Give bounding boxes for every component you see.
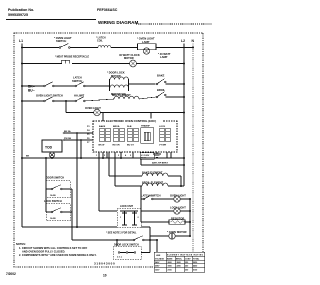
junction x77 input a bbox=[76, 132, 78, 134]
svg-text:CONV: CONV bbox=[185, 258, 191, 260]
EOC pin labels below bbox=[96, 154, 132, 157]
wire row3 mid bbox=[54, 85, 75, 87]
header rule left bbox=[6, 19, 96, 21]
junction pin4 row158 bbox=[120, 157, 122, 159]
svg-text:120V: 120V bbox=[155, 270, 160, 272]
switch S9 door switch 1 (dashed box) bbox=[46, 181, 70, 198]
wire row1 mid b bbox=[111, 47, 137, 49]
junction L2 row158 bbox=[183, 157, 185, 159]
ground chassis EOC bbox=[153, 152, 161, 157]
svg-text:ANTI-TIP BRKT: ANTI-TIP BRKT bbox=[152, 162, 169, 165]
svg-text:BK: BK bbox=[26, 156, 30, 158]
motor M2 door lock motor (double winding) bbox=[110, 77, 129, 91]
svg-text:BAKE: BAKE bbox=[99, 125, 106, 128]
svg-text:TOTAL: TOTAL bbox=[193, 257, 200, 260]
junction L1 row158 bbox=[21, 157, 23, 159]
switch S11 door lock bbox=[133, 236, 144, 241]
svg-text:240V: 240V bbox=[155, 261, 160, 264]
svg-text:L2: L2 bbox=[181, 39, 185, 43]
svg-text:VOLTAGE: VOLTAGE bbox=[155, 257, 165, 260]
svg-text:LOCK SWITCH: LOCK SWITCH bbox=[44, 200, 62, 203]
wire row240 right bbox=[144, 239, 157, 241]
connector J1 meat probe receptacle bbox=[62, 60, 70, 63]
svg-text:5995359725: 5995359725 bbox=[8, 13, 28, 17]
wire row211 right bbox=[180, 210, 190, 212]
relay K5 lock unit (dashed box with contacts) bbox=[117, 209, 141, 228]
label latch switch b bbox=[72, 76, 82, 83]
wire row199 mid bbox=[153, 198, 174, 200]
wire row2 right bbox=[136, 63, 184, 65]
wire lamp row left bbox=[66, 112, 94, 114]
svg-text:MOTOR: MOTOR bbox=[124, 56, 134, 60]
svg-text:5950: 5950 bbox=[193, 262, 197, 264]
junction broil corner bbox=[180, 185, 182, 187]
svg-text:* SEE NOTE 2 FOR DETAIL: * SEE NOTE 2 FOR DETAIL bbox=[106, 232, 137, 235]
svg-text:2100: 2100 bbox=[168, 270, 172, 272]
relay K3 DLB relay bbox=[127, 126, 138, 147]
switch S4 bake contact bbox=[156, 79, 166, 85]
svg-text:DOOR SWITCH: DOOR SWITCH bbox=[46, 177, 64, 180]
switch S12 door lock switch (dashed box) bbox=[113, 247, 141, 260]
switch S6 hi-limit bbox=[75, 97, 85, 102]
resistor R4 bbox=[169, 220, 185, 224]
wire vertical x77 EOC to bottom row bbox=[76, 133, 78, 227]
wire row2 mid bbox=[72, 63, 130, 65]
motor M3 convection bbox=[169, 233, 175, 239]
svg-text:RD OR: RD OR bbox=[113, 145, 120, 147]
wire b1a box right to x150 bbox=[141, 252, 150, 254]
junction row222 return bbox=[189, 221, 191, 223]
label latch coil bbox=[96, 37, 106, 43]
junction row240 x117 bbox=[116, 239, 118, 241]
svg-text:SWITCH: SWITCH bbox=[56, 39, 66, 43]
svg-text:SWITCH: SWITCH bbox=[72, 79, 82, 83]
wire row199 left bbox=[141, 198, 143, 200]
junction L1 row3 bbox=[21, 85, 23, 87]
svg-text:3000: 3000 bbox=[177, 262, 181, 264]
label clock motor bbox=[119, 53, 140, 60]
wire row4 to element bbox=[85, 99, 114, 101]
transformer T1 bbox=[141, 125, 154, 144]
relay K4 lock relay bbox=[159, 126, 170, 147]
svg-text:260: 260 bbox=[185, 266, 188, 268]
wire vertical x157 to table bbox=[156, 240, 158, 253]
junction x81 input b bbox=[80, 139, 82, 141]
junction L1 row2 bbox=[21, 63, 23, 65]
svg-text:1. CIRCUIT SHOWN WITH ALL CONT: 1. CIRCUIT SHOWN WITH ALL CONTROLS SET T… bbox=[19, 246, 88, 250]
wire row4 right bbox=[165, 96, 184, 98]
junction row211 return bbox=[189, 210, 191, 212]
svg-text:4460: 4460 bbox=[193, 265, 197, 268]
svg-text:BU--: BU-- bbox=[28, 89, 35, 93]
wire row199 right bbox=[180, 198, 190, 200]
switch S10 door switch 2 (dashed box) bbox=[46, 204, 70, 221]
svg-text:COIL: COIL bbox=[97, 39, 103, 42]
svg-text:ELECTRONIC OVEN CONTROL (EOC): ELECTRONIC OVEN CONTROL (EOC) bbox=[106, 119, 156, 123]
wire lamp return bus bbox=[189, 199, 191, 236]
svg-text:5100: 5100 bbox=[193, 270, 197, 272]
wire row3 to motor bbox=[85, 85, 109, 87]
wire bake to corner bbox=[168, 175, 181, 177]
junction tee row4 bbox=[65, 100, 67, 102]
lamp DS1 oven light (socket + bulb) bbox=[138, 44, 157, 54]
switch S1 oven light switch bbox=[59, 44, 70, 49]
svg-text:BAKE: BAKE bbox=[167, 257, 173, 260]
lamp DS5 lock light bbox=[174, 208, 180, 214]
wire row240 bbox=[72, 239, 133, 241]
junction L1 row1 bbox=[21, 47, 23, 49]
switch S5 oven light switch bbox=[44, 97, 54, 102]
svg-text:2. COMPONENTS WITH * ARE USED: 2. COMPONENTS WITH * ARE USED ON SOME MO… bbox=[19, 253, 97, 257]
op-amp U1 electronic oven control box bbox=[93, 121, 177, 152]
header rule right dotted bbox=[136, 23, 212, 25]
svg-text:60 Hz: 60 Hz bbox=[141, 157, 148, 159]
element R1 coil bbox=[114, 96, 139, 99]
svg-text:BK W: BK W bbox=[99, 145, 106, 147]
junction row240 x150 bbox=[149, 239, 151, 241]
svg-text:ELEMENT WATTAGE RATING: ELEMENT WATTAGE RATING bbox=[167, 254, 204, 257]
junction row236 return bbox=[189, 235, 191, 237]
connector P1 small box bbox=[140, 153, 154, 160]
wire y211 into lock unit bbox=[99, 210, 117, 212]
switch S2 latch switch a bbox=[44, 82, 54, 87]
wire row222 right bbox=[185, 221, 190, 223]
wire lock unit out right row211 bbox=[140, 210, 142, 212]
svg-text:VT WR: VT WR bbox=[159, 145, 166, 147]
wire row158 bbox=[22, 157, 184, 159]
junction row199 return bbox=[189, 198, 191, 200]
element R2 bake element bbox=[142, 173, 168, 176]
junction L2 row165 bbox=[183, 164, 185, 166]
wire row3 right bbox=[165, 83, 184, 85]
svg-text:7/2002: 7/2002 bbox=[6, 272, 16, 276]
svg-text:AND OVEN DOOR FULLY CLOSED.: AND OVEN DOOR FULLY CLOSED. bbox=[22, 249, 66, 253]
svg-text:WIRING DIAGRAM: WIRING DIAGRAM bbox=[98, 20, 138, 25]
wire row227 L1 to lock unit bbox=[22, 226, 117, 228]
wire N bus bbox=[192, 44, 194, 254]
schematic border frame bbox=[14, 33, 203, 267]
wire row222 left bbox=[141, 221, 169, 223]
wire row4 left bbox=[22, 100, 44, 102]
wire lock unit bottom out bbox=[141, 226, 150, 228]
svg-text:BROIL: BROIL bbox=[176, 258, 183, 260]
svg-text:BAKE: BAKE bbox=[157, 74, 165, 78]
svg-text:LAMP: LAMP bbox=[142, 40, 150, 44]
stub lamp row to EOC top bbox=[102, 113, 104, 122]
label oven light switch S1 bbox=[54, 36, 72, 43]
junction row240 x157 bbox=[156, 239, 158, 241]
element L1a latch coil bbox=[98, 45, 111, 47]
svg-text:LOCK UNIT: LOCK UNIT bbox=[120, 205, 134, 208]
junction x77 row227 bbox=[76, 226, 78, 228]
wire vertical x72 bbox=[71, 189, 73, 240]
lamp DS4 oven light bbox=[174, 196, 180, 202]
header: publication number block bbox=[8, 8, 34, 17]
wire lamp row right bbox=[100, 112, 184, 114]
wire row2 left bbox=[22, 63, 62, 65]
wire row236 right bbox=[175, 235, 190, 237]
wire EOC left input b bbox=[63, 139, 65, 141]
wire motor to switch bbox=[129, 83, 156, 85]
svg-text:DOOR LOCK SWITCH: DOOR LOCK SWITCH bbox=[114, 244, 139, 247]
svg-text:1A 2B: 1A 2B bbox=[50, 217, 56, 220]
wire vertical x150 row240 to b1a bbox=[149, 240, 151, 253]
wire row1 mid a bbox=[70, 47, 98, 49]
wire row4 mid with tee bbox=[54, 100, 75, 102]
svg-text:TRANSF: TRANSF bbox=[141, 125, 151, 128]
wire row1 right bbox=[156, 47, 193, 49]
svg-text:PW 5B: PW 5B bbox=[64, 138, 71, 140]
svg-text:2250: 2250 bbox=[177, 266, 181, 268]
svg-text:BROIL: BROIL bbox=[157, 88, 165, 92]
svg-text:b 1 a: b 1 a bbox=[117, 257, 123, 259]
svg-text:* MEAT PROBE RECEPTACLE: * MEAT PROBE RECEPTACLE bbox=[55, 56, 89, 59]
wire EOC left input a bbox=[63, 132, 65, 134]
wire vertical x117 to lock switch box bbox=[116, 240, 118, 246]
svg-text:208V: 208V bbox=[155, 266, 160, 268]
wire L1 bus bbox=[21, 44, 23, 228]
svg-text:DLB: DLB bbox=[127, 126, 132, 128]
wire pin drop bake bbox=[108, 152, 110, 176]
wire row165 from connector to L2 bbox=[140, 159, 142, 165]
svg-text:OVEN LIGHT SWITCH: OVEN LIGHT SWITCH bbox=[36, 94, 63, 98]
wire vertical x46 from row158 bbox=[45, 157, 47, 159]
wire vertical x150 bbox=[149, 236, 151, 240]
wire tee down to lamp row bbox=[65, 101, 67, 113]
svg-text:1A 2B: 1A 2B bbox=[50, 194, 56, 197]
svg-text:2600: 2600 bbox=[168, 262, 172, 264]
svg-text:350: 350 bbox=[185, 262, 188, 264]
junction x81 row158 bbox=[80, 157, 82, 159]
wire element to switch bbox=[139, 97, 156, 99]
relay K2 broil relay bbox=[113, 126, 125, 147]
svg-text:LOCK: LOCK bbox=[159, 126, 166, 128]
svg-text:BK 5A: BK 5A bbox=[64, 130, 71, 133]
thermostat TOD box bbox=[42, 140, 62, 152]
wire row236 left bbox=[150, 235, 169, 237]
svg-text:10: 10 bbox=[103, 274, 107, 278]
junction L2 row4 bbox=[183, 96, 185, 98]
wire row1 left bbox=[22, 47, 59, 49]
svg-text:LOCK LIGHT: LOCK LIGHT bbox=[170, 206, 186, 210]
svg-text:FEF366ASC: FEF366ASC bbox=[97, 8, 118, 12]
junction L2 lamp row bbox=[183, 112, 185, 114]
lamp DS3 indicator under TOD bbox=[49, 152, 55, 158]
label EOC title bbox=[105, 119, 163, 123]
svg-text:318043000: 318043000 bbox=[94, 261, 115, 265]
svg-text:300: 300 bbox=[185, 270, 188, 272]
junction L2 row3 bbox=[183, 83, 185, 85]
wire pin drop broil bbox=[114, 152, 116, 186]
wire L2 bus bbox=[183, 44, 185, 187]
wire vertical x81 EOC input b bbox=[80, 140, 82, 158]
junction N row1 bbox=[192, 47, 194, 49]
label oven light DS1 bbox=[137, 37, 155, 44]
switch S3 latch switch b bbox=[75, 82, 85, 87]
label wire colors BK BU bbox=[28, 85, 35, 93]
wire row211 left bbox=[141, 210, 174, 212]
EOC pin stubs to row158 bbox=[103, 152, 171, 158]
wire vertical x99 EOC pin1 down bbox=[98, 152, 100, 211]
motor M1 clock motor bbox=[130, 60, 137, 67]
junction L2 row2 bbox=[183, 63, 185, 65]
junction TOD lamp row158 bbox=[51, 157, 53, 159]
label 40 watt lamp bbox=[158, 52, 171, 59]
svg-text:1950: 1950 bbox=[168, 266, 172, 268]
svg-text:Publication No.: Publication No. bbox=[8, 8, 34, 12]
svg-text:BROIL: BROIL bbox=[113, 126, 120, 128]
lamp DS2 oven light bbox=[94, 109, 101, 116]
svg-text:NOTES:: NOTES: bbox=[16, 242, 26, 246]
junction pin2 row158 bbox=[102, 157, 104, 159]
switch S7 broil contact bbox=[156, 92, 166, 98]
element R3 broil element bbox=[142, 183, 168, 186]
svg-text:OVEN LIGHT: OVEN LIGHT bbox=[170, 194, 186, 198]
svg-text:LAMP: LAMP bbox=[160, 55, 168, 59]
EOC left pin labels bbox=[87, 126, 90, 144]
stub lamp row to EOC top b bbox=[150, 113, 152, 122]
svg-text:TOD: TOD bbox=[45, 146, 53, 150]
svg-text:BU GY: BU GY bbox=[127, 145, 134, 147]
junction L1 row4 bbox=[21, 100, 23, 102]
label door lock motor bbox=[107, 71, 125, 78]
wire door boxes to vertical x72 bbox=[70, 188, 72, 190]
svg-text:L1: L1 bbox=[19, 39, 23, 43]
wire left feed vertical x141 bbox=[140, 186, 142, 222]
wire broil to L2 end bbox=[168, 185, 184, 187]
svg-text:LINE: LINE bbox=[156, 255, 161, 257]
wire vertical x150 bbox=[149, 227, 151, 236]
svg-text:BAKE ELEMENT: BAKE ELEMENT bbox=[142, 171, 163, 175]
switch S8 latch bbox=[143, 195, 153, 200]
relay K1 bake relay bbox=[99, 125, 111, 147]
wire row3 left bbox=[22, 85, 44, 87]
